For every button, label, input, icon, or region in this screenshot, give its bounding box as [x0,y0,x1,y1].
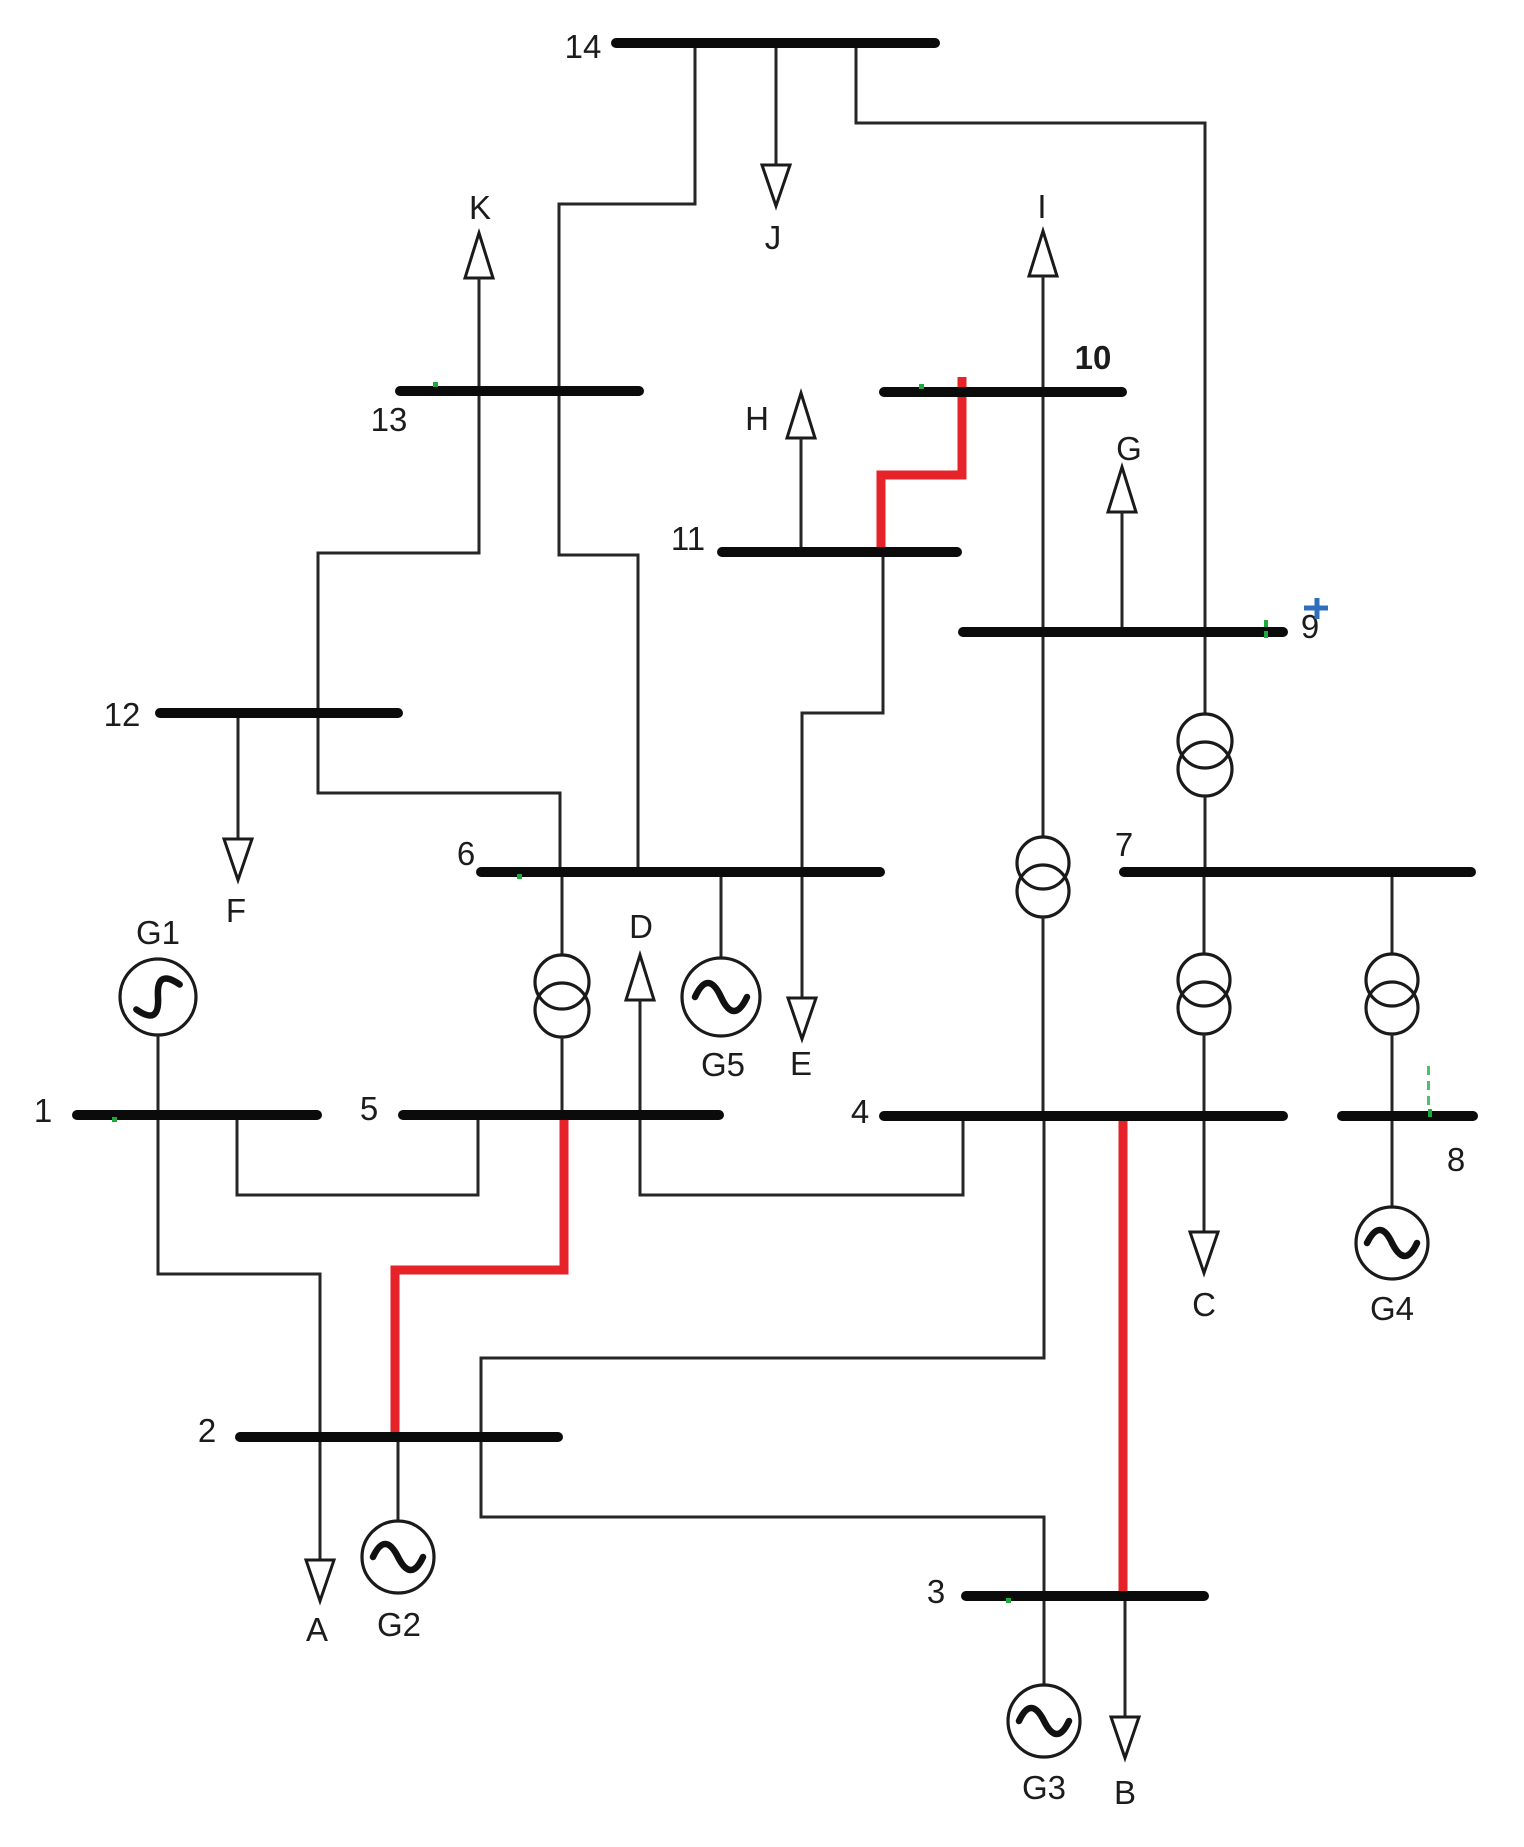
transformer T7-4 [1178,954,1230,1034]
svg-text:K: K [469,189,491,226]
generator G2 [362,1521,434,1593]
svg-text:G5: G5 [701,1046,745,1083]
svg-text:G2: G2 [377,1606,421,1643]
svg-text:C: C [1192,1286,1216,1323]
bus 3 [966,1591,1204,1601]
svg-text:I: I [1037,188,1046,225]
bus 10 [884,387,1122,397]
load arrow F [224,839,252,880]
red line 5-2 [395,1117,564,1434]
wire load A drop [319,1437,322,1559]
load arrow G [1108,467,1136,512]
svg-text:7: 7 [1115,826,1133,863]
wire load D through bus 5, wire 5-4 [640,1000,963,1195]
bus 2 [240,1432,558,1442]
bus 4 [884,1111,1283,1121]
bus 14 [616,38,935,48]
load arrow B [1111,1717,1139,1758]
wire bus 8 to G4 [1391,1116,1394,1207]
stray mark green dashes bus 9 [1264,620,1268,638]
wire 12-6 [318,713,560,872]
svg-text:A: A [306,1611,328,1648]
svg-text:14: 14 [565,28,602,65]
load arrow A [306,1560,334,1601]
wire load E drop [801,872,804,997]
load arrow D [626,955,654,1000]
wire 1-5 [237,1115,478,1195]
svg-text:3: 3 [927,1573,945,1610]
bus 11 [722,547,957,557]
generator G5 [682,958,760,1036]
red line 4-3 [1119,1120,1128,1593]
wire bus 3 to G3 [1043,1596,1046,1685]
wire 2-4 [481,1116,1044,1437]
wire transformer to bus 5 [561,1037,564,1115]
stray mark green dot bus 1 [112,1117,117,1122]
wire load I through bus 10 and bus 9 [1042,276,1045,837]
svg-text:5: 5 [360,1090,378,1127]
svg-text:E: E [790,1045,812,1082]
wire transformer to bus 4 [1042,917,1045,1116]
generator G3 [1008,1685,1080,1757]
wire bus 6 to G5 [720,872,723,958]
svg-text:10: 10 [1075,339,1112,376]
stray mark green dashed tick above bus 8 [1427,1066,1432,1117]
wire 7 to transformer T7-8 [1391,872,1394,954]
wire 14-9 [856,43,1205,632]
wire load K to bus 13 [478,278,481,391]
stray mark green dot bus 10 [919,384,924,389]
svg-text:11: 11 [671,520,705,557]
svg-text:G4: G4 [1370,1290,1414,1327]
wire load J drop [775,43,778,164]
svg-text:2: 2 [198,1412,216,1449]
load arrow J [762,165,790,206]
svg-text:H: H [745,400,769,437]
wire G1 to bus 1 [157,1035,160,1115]
wire 11-6 [802,552,883,872]
svg-text:6: 6 [457,835,475,872]
wire 14-13 [559,43,695,391]
wire transformer to bus 7 [1204,796,1207,872]
svg-text:1: 1 [34,1092,52,1129]
load arrow K [465,233,493,278]
svg-text:F: F [226,892,246,929]
svg-text:J: J [765,219,782,256]
bus 7 [1124,867,1471,877]
wire load G to bus 9 [1121,512,1124,632]
wire 7 to transformer T7-4 [1203,872,1206,954]
stray mark green dot bus 3 [1006,1598,1011,1603]
cursor mark (blue) near bus 9 label [1304,598,1328,619]
wire 1-2 [158,1115,320,1437]
transformer T9-7 [1178,714,1232,796]
wire 13-12 [318,391,479,713]
svg-text:G: G [1116,430,1142,467]
stray mark green dot bus 13 [433,382,438,387]
bus 6 [481,867,880,877]
svg-text:G1: G1 [136,914,180,951]
wire load B drop [1124,1596,1127,1716]
bus 5 [403,1110,719,1120]
red line 10-11 [881,377,962,550]
svg-text:D: D [629,908,653,945]
svg-text:G3: G3 [1022,1769,1066,1806]
bus 12 [160,708,398,718]
svg-text:4: 4 [851,1093,869,1130]
bus 1 [77,1110,317,1120]
transformer T6-5 [535,955,589,1037]
bus 9 [963,627,1283,637]
generator G1 [120,959,196,1035]
stray mark green dot bus 6 [517,874,522,879]
load arrow H [787,393,815,438]
transformer T7-8 [1366,954,1418,1034]
svg-text:12: 12 [104,696,141,733]
svg-text:B: B [1114,1774,1136,1811]
svg-text:8: 8 [1447,1141,1465,1178]
load arrow E [788,998,816,1039]
wire 9 to transformer [1204,632,1207,714]
bus 8 [1342,1111,1473,1121]
wire 6 to transformer T6-5 [561,872,564,955]
load arrow I [1029,231,1057,276]
wire 2-3 [481,1437,1044,1596]
wire load F drop [237,713,240,838]
svg-text:13: 13 [371,401,408,438]
transformer T9-4 [1017,837,1069,917]
load arrow C [1190,1232,1218,1273]
wire load H to bus 11 [800,438,803,552]
wire 13-6 [559,391,638,872]
generator G4 [1356,1207,1428,1279]
bus 13 [400,386,639,396]
wire transformer through bus 4 to load C [1203,1034,1206,1231]
wire bus 2 to G2 [397,1437,400,1521]
wire transformer to bus 8 [1391,1034,1394,1116]
